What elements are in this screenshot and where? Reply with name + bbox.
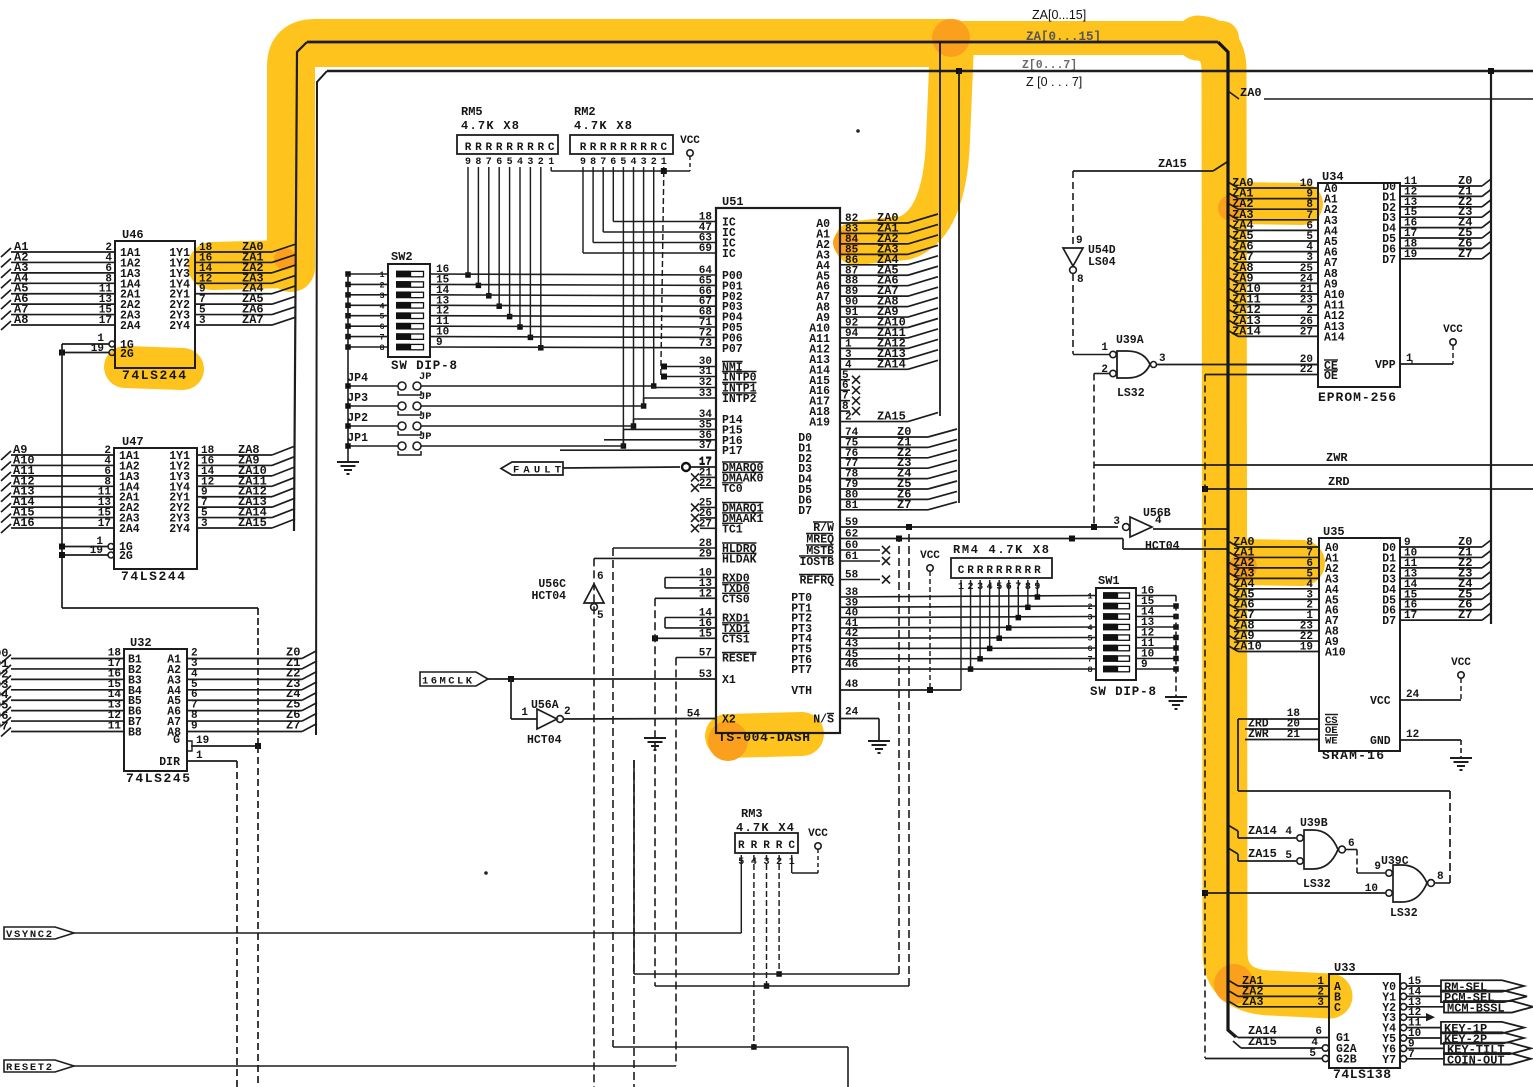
svg-text:U56A: U56A: [531, 699, 559, 712]
svg-text:LS32: LS32: [1117, 387, 1145, 400]
wire net ZA9 from U51: [840, 316, 908, 318]
wire net ZA14 from U47 pin 5: [197, 517, 272, 519]
wire PT5 to SW1: [840, 647, 1096, 650]
svg-text:8: 8: [475, 157, 481, 168]
svg-text:R: R: [580, 142, 587, 154]
wire SW2 pin 16 to U51 P00: [430, 274, 716, 275]
wire net Z0 from U35 pin 9: [1400, 546, 1482, 548]
svg-text:JP2: JP2: [347, 412, 368, 425]
wire net A6 to U46 pin 13: [11, 303, 115, 305]
svg-text:VPP: VPP: [1375, 359, 1396, 372]
svg-text:C: C: [1334, 1002, 1341, 1015]
wire net ZA3 to U33: [1228, 1001, 1238, 1007]
wire net ZA4 to U34 pin 6: [1228, 224, 1238, 230]
svg-text:GND: GND: [1370, 735, 1391, 748]
wire HLDRQ vertical: [612, 548, 614, 1047]
wire net A11 to U47 pin 6: [11, 475, 114, 477]
wire net D6 to U32 pin 12: [11, 720, 124, 722]
wire net ZA0 from U51: [840, 222, 908, 224]
wire JP2 to U51: [421, 425, 634, 427]
svg-text:VCC: VCC: [1443, 324, 1463, 336]
svg-text:4: 4: [1087, 623, 1092, 633]
wire net D3 to U32 pin 15: [11, 689, 124, 691]
svg-text:D7: D7: [798, 505, 812, 518]
svg-text:R: R: [776, 840, 783, 852]
svg-text:LS32: LS32: [1390, 907, 1418, 920]
net RM-SEL: [1407, 985, 1441, 987]
svg-text:ZA15: ZA15: [877, 410, 906, 424]
wire G vertical: [257, 746, 259, 1087]
svg-text:RM3: RM3: [741, 807, 763, 821]
svg-text:U35: U35: [1323, 525, 1345, 539]
wire RM3 pin1: [791, 855, 793, 873]
svg-text:R: R: [996, 565, 1003, 577]
svg-text:5: 5: [507, 157, 513, 168]
wire SW2 pin 7 common: [348, 336, 388, 338]
svg-text:9: 9: [1141, 659, 1148, 671]
svg-text:X2: X2: [722, 714, 736, 727]
svg-text:U34: U34: [1322, 170, 1344, 184]
wire net ZA12 from U51: [840, 347, 908, 349]
svg-text:81: 81: [845, 500, 859, 512]
svg-text:ZA0: ZA0: [1240, 86, 1262, 100]
svg-text:JP: JP: [419, 371, 432, 383]
svg-text:19: 19: [91, 343, 104, 355]
wire RXD0/TXD0 loop: [665, 577, 716, 579]
svg-text:R: R: [600, 142, 607, 154]
wire U46/U47 enable rail: [61, 344, 63, 608]
svg-text:6: 6: [1348, 838, 1355, 850]
svg-text:3: 3: [527, 157, 533, 168]
net COIN-OUT: [1407, 1058, 1444, 1060]
wire RM5 pin 2 pull-up: [540, 167, 542, 348]
wire net Z7 from U51: [840, 509, 928, 511]
svg-text:17: 17: [99, 315, 112, 327]
svg-text:SW1: SW1: [1098, 574, 1120, 588]
wire net A5 to U46 pin 11: [11, 293, 115, 295]
svg-text:8: 8: [1077, 274, 1084, 286]
wire PT2 to SW1: [840, 617, 1096, 618]
svg-text:G2B: G2B: [1336, 1054, 1357, 1067]
svg-text:8: 8: [590, 157, 596, 168]
wire SW1 pin 13: [1136, 626, 1176, 628]
svg-text:P07: P07: [722, 343, 743, 356]
svg-text:Z7: Z7: [1458, 608, 1472, 622]
wire net ZA13 from U51: [840, 358, 908, 360]
svg-text:R: R: [527, 142, 534, 154]
wire net Z5 from U34 pin 17: [1400, 237, 1482, 239]
svg-text:ZWR: ZWR: [1326, 451, 1348, 465]
svg-text:5: 5: [1285, 850, 1292, 862]
wire net ZA2 to U35 pin 6: [1228, 562, 1238, 568]
wire net Z1 from U51: [840, 446, 928, 448]
svg-text:R: R: [620, 142, 627, 154]
buffer U47 (74LS244): [114, 448, 197, 569]
pin U34 CE: [1227, 364, 1318, 366]
svg-text:HLDAK: HLDAK: [722, 553, 757, 566]
wire net ZA12 to U34 pin 2: [1228, 309, 1238, 315]
wire net A2 to U46 pin 4: [11, 261, 115, 263]
wire HLDRQ: [613, 547, 716, 549]
net PCM-SEL: [1407, 995, 1441, 997]
svg-text:74LS244: 74LS244: [122, 368, 186, 383]
wire RM3 pin2: [778, 855, 780, 974]
svg-text:74LS245: 74LS245: [126, 771, 190, 786]
wire SW2 pin 8 common: [348, 346, 388, 348]
wire to U33 G2B: [1205, 1058, 1322, 1060]
svg-text:A16: A16: [13, 516, 35, 530]
wire net ZA6 from U51: [840, 285, 908, 287]
svg-text:4: 4: [1285, 826, 1292, 838]
svg-text:VTH: VTH: [791, 685, 812, 698]
wire SW2 pin 1 common: [348, 273, 388, 275]
wire RESET vertical: [676, 657, 716, 659]
svg-text:3: 3: [641, 157, 647, 168]
svg-text:R: R: [475, 142, 482, 154]
svg-text:73: 73: [699, 338, 713, 350]
svg-text:2G: 2G: [120, 348, 134, 361]
svg-text:21: 21: [1287, 729, 1301, 741]
wire SW1 pin 9: [1136, 668, 1176, 670]
svg-text:2: 2: [379, 280, 384, 290]
svg-text:EPROM-256: EPROM-256: [1318, 390, 1396, 405]
svg-text:JP4: JP4: [347, 372, 368, 385]
wire P17: [560, 449, 716, 451]
wire SW2 pin 14 to U51 P02: [430, 294, 716, 297]
svg-text:2Y4: 2Y4: [169, 523, 190, 536]
svg-text:3: 3: [1159, 353, 1166, 365]
wire net ZA10 to U35 pin 19: [1228, 646, 1238, 652]
wire net ZA10 from U47 pin 14: [197, 475, 272, 477]
wire RM5 pin 1 common: [550, 167, 552, 171]
wire: ZA bus right corner + vertical trunk: [1218, 42, 1236, 1037]
wire SW1 pin 10: [1136, 658, 1176, 660]
svg-text:ZA3: ZA3: [1242, 995, 1264, 1009]
svg-text:D7: D7: [0, 720, 8, 734]
svg-text:CTS1: CTS1: [722, 633, 750, 646]
svg-text:R: R: [506, 142, 513, 154]
wire RM2 pin 4 pull-up to jumper line: [633, 167, 635, 426]
wire net Z6 from U34 pin 18: [1400, 247, 1482, 249]
wire net ZA1 to U35 pin 7: [1228, 551, 1238, 557]
wire net A8 to U46 pin 17: [11, 324, 115, 326]
svg-text:U51: U51: [722, 195, 744, 209]
net KEY-2P: [1407, 1037, 1441, 1039]
svg-text:R: R: [1005, 565, 1012, 577]
wire net Z2 from U35 pin 11: [1400, 567, 1482, 569]
svg-text:17: 17: [699, 456, 712, 468]
svg-text:9: 9: [465, 157, 471, 168]
net FAULT: [501, 462, 563, 475]
svg-text:R: R: [977, 565, 984, 577]
wire RM3 pin4: [753, 855, 755, 1047]
svg-text:4.7K X8: 4.7K X8: [574, 119, 632, 133]
wire net Z4 from U32 pin 6: [187, 699, 302, 701]
svg-text:17: 17: [1404, 610, 1417, 622]
svg-text:19: 19: [1300, 642, 1313, 654]
wire SW2 pin 2 common: [348, 283, 388, 285]
wire net Z6 from U51: [840, 498, 928, 500]
wire: ZA bus top horizontal: [307, 41, 1218, 44]
svg-text:RM5: RM5: [461, 105, 483, 119]
svg-text:R: R: [986, 565, 993, 577]
ground (N/S): [868, 740, 890, 742]
wire to U54D: [1072, 171, 1074, 247]
wire net ZA2 from U46 pin 14: [195, 272, 272, 274]
wire net Z0 from U34 pin 11: [1400, 185, 1482, 187]
wire net A16 to U47 pin 17: [11, 527, 114, 529]
svg-text:9: 9: [1076, 235, 1083, 247]
pin U35 WE net ZWR: [1245, 739, 1319, 741]
wire net Z2 from U32 pin 4: [187, 678, 302, 680]
wire RM3 pin3: [766, 855, 768, 986]
svg-text:4: 4: [379, 301, 384, 311]
svg-text:JP: JP: [419, 391, 432, 403]
wire net ZA8 from U47 pin 18: [197, 454, 272, 456]
wire RM2 pin 8 to U51 IC pin: [602, 167, 604, 232]
svg-text:2A4: 2A4: [119, 523, 140, 536]
wire RM4 pin 9 pull-up: [1036, 580, 1038, 597]
wire U39A out to U34 CE: [1157, 364, 1318, 366]
svg-text:ZA14: ZA14: [1248, 824, 1277, 838]
wire HLDAK: [594, 557, 716, 559]
svg-text:69: 69: [699, 243, 712, 255]
wire SW2 pin 9 to U51 P07: [430, 346, 716, 349]
svg-text:R: R: [1034, 565, 1041, 577]
wire net ZA9 from U47 pin 16: [197, 464, 272, 466]
wire RM2 pin 7 to U51 IC pin: [592, 167, 594, 243]
svg-text:Z7: Z7: [286, 719, 300, 733]
svg-text:R: R: [650, 142, 657, 154]
svg-text:IOSTB: IOSTB: [799, 556, 834, 569]
wire net Z1 from U32 pin 3: [187, 668, 302, 670]
wire PT3 to SW1: [840, 626, 1096, 629]
wire ZRD/OE rail vertical: [1204, 375, 1206, 1059]
svg-text:4: 4: [630, 157, 636, 168]
svg-text:3: 3: [201, 518, 208, 530]
svg-text:19: 19: [196, 735, 209, 747]
wire RM5 pin 7 pull-up: [488, 167, 490, 296]
bus entry hatches left edge: [1, 248, 11, 257]
svg-text:IC: IC: [722, 248, 736, 261]
wire net Z7 from U35 pin 17: [1400, 619, 1482, 621]
svg-text:Z7: Z7: [897, 498, 911, 512]
svg-text:P17: P17: [722, 445, 743, 458]
buffer U46 (74LS244): [115, 241, 195, 368]
svg-text:LS04: LS04: [1088, 256, 1116, 269]
wire net D2 to U32 pin 16: [11, 678, 124, 680]
wire SW2 pin 13 to U51 P03: [430, 304, 716, 307]
eprom U34 (EPROM-256): [1318, 183, 1400, 387]
net ZA14 to U33 G1: [1228, 1030, 1238, 1038]
svg-text:LS32: LS32: [1303, 878, 1331, 891]
wire net Z5 from U35 pin 15: [1400, 598, 1482, 600]
wire net ZA3 from U46 pin 12: [195, 282, 272, 284]
wire net Z3 from U32 pin 5: [187, 689, 302, 691]
svg-text:ZA15: ZA15: [1248, 1035, 1277, 1049]
svg-text:5: 5: [597, 610, 604, 622]
svg-text:Z7: Z7: [1458, 247, 1472, 261]
wire net ZA0 to U35 pin 8: [1228, 541, 1238, 547]
wire net A13 to U47 pin 11: [11, 496, 114, 498]
wire PT4 to SW1: [840, 637, 1096, 640]
wire net Z7 from U34 pin 19: [1400, 258, 1482, 260]
wire net Z4 from U51: [840, 478, 928, 480]
wire RM2 pin 2 pull-up to jumper line: [653, 167, 655, 386]
svg-text:R: R: [738, 840, 745, 852]
wire JP3 to U51: [421, 405, 644, 407]
wire RXD1/TXD1 loop: [665, 617, 716, 619]
svg-text:ZA[0...15]: ZA[0...15]: [1032, 8, 1086, 22]
wire net Z2 from U51: [840, 457, 928, 459]
svg-text:VCC: VCC: [1451, 657, 1471, 669]
wire net ZA2 to U34 pin 8: [1228, 203, 1238, 209]
wire RM5 pin 6 pull-up: [498, 167, 500, 306]
svg-text:JP: JP: [419, 431, 432, 443]
svg-text:VCC: VCC: [680, 135, 700, 147]
wire SW2 pin 3 common: [348, 294, 388, 296]
svg-text:R: R: [610, 142, 617, 154]
x marks unconnected DMA pins: [700, 476, 716, 478]
svg-text:C: C: [788, 840, 795, 852]
wire RM4 pin 3 pull-up: [979, 580, 981, 659]
svg-text:U39A: U39A: [1116, 334, 1144, 347]
svg-text:1: 1: [1087, 592, 1092, 602]
wire net ZA0 to U34 pin 10: [1228, 182, 1238, 188]
svg-text:2: 2: [564, 706, 571, 718]
svg-text:5: 5: [620, 157, 626, 168]
svg-text:INTP2: INTP2: [722, 393, 757, 406]
wire net Z1 from U34 pin 12: [1400, 195, 1482, 197]
wire RM2 pin 1 to VCC rail: [663, 167, 665, 171]
wire SW1 pin 11: [1136, 647, 1176, 649]
svg-text:1: 1: [196, 750, 203, 762]
wire U54D out to U39A: [1072, 274, 1074, 354]
svg-text:HCT04: HCT04: [1145, 540, 1180, 553]
wire RM2 pin 9 to U51 IC pin: [612, 167, 614, 222]
wire net Z7 from U32 pin 9: [187, 731, 302, 733]
svg-text:R: R: [1015, 565, 1022, 577]
svg-text:9: 9: [436, 337, 443, 349]
wire net Z6 from U32 pin 8: [187, 720, 302, 722]
svg-text:Z [0 . . . 7]: Z [0 . . . 7]: [1026, 75, 1082, 89]
svg-text:U39C: U39C: [1381, 855, 1409, 868]
svg-text:2A4: 2A4: [120, 320, 141, 333]
svg-text:3: 3: [199, 315, 206, 327]
svg-text:3: 3: [1087, 613, 1092, 623]
wire net A7 to U46 pin 15: [11, 314, 115, 316]
wire MREQ rail to U39C input 10: [1205, 892, 1385, 894]
wire enable rail to U32: [62, 607, 258, 609]
wire net D1 to U32 pin 17: [11, 668, 124, 670]
wire R/W return: [655, 985, 909, 987]
wire net ZA4 from U46 pin 9: [195, 293, 272, 295]
wire net Z4 from U34 pin 16: [1400, 227, 1482, 229]
wire SW2/JP ground rail: [347, 274, 349, 462]
svg-text:2: 2: [845, 412, 852, 424]
svg-text:27: 27: [1300, 326, 1313, 338]
svg-text:R: R: [537, 142, 544, 154]
wire net Z0 from U32 pin 2: [187, 658, 302, 660]
wire SW1 pin 12: [1136, 637, 1176, 639]
wire U39A input 2 from ZWR rail: [1094, 373, 1110, 375]
svg-text:R: R: [517, 142, 524, 154]
svg-text:4.7K X8: 4.7K X8: [461, 119, 519, 133]
wire net ZA8 to U35 pin 23: [1228, 625, 1238, 631]
wire net Z4 from U35 pin 14: [1400, 588, 1482, 590]
wire RM4 pin 7 pull-up: [1017, 580, 1019, 618]
svg-text:ZA15: ZA15: [1158, 157, 1187, 171]
wire net ZA14 to U34 pin 27: [1228, 330, 1238, 336]
wire PT1 to SW1: [840, 606, 1096, 607]
wire net A15 to U47 pin 15: [11, 517, 114, 519]
svg-text:ZA10: ZA10: [1233, 640, 1262, 654]
wire net Z2 from U34 pin 13: [1400, 206, 1482, 208]
net KEY-TILT: [1407, 1047, 1444, 1049]
wire net ZA2 to U33: [1228, 990, 1238, 996]
svg-text:R: R: [751, 840, 758, 852]
svg-text:7: 7: [486, 157, 492, 168]
wire RM4 pin 8 pull-up: [1027, 580, 1029, 607]
wire RM4 pin 2 pull-up: [970, 580, 972, 669]
wire U39B out to U39C in: [1346, 849, 1358, 851]
svg-text:R: R: [465, 142, 472, 154]
wire net A4 to U46 pin 8: [11, 282, 115, 284]
svg-text:R: R: [1025, 565, 1032, 577]
svg-text:2Y4: 2Y4: [169, 320, 190, 333]
wire net ZA5 from U51: [840, 274, 908, 276]
net KEY-1P: [1407, 1027, 1441, 1029]
inverter U56A (HCT04): [510, 679, 512, 719]
wire: Z branch vertical to U51 data pins: [958, 71, 960, 503]
svg-text:VCC: VCC: [808, 828, 828, 840]
wire net ZA11 from U47 pin 12: [197, 485, 272, 487]
pin U35 OE net ZRD: [1245, 728, 1319, 730]
wire RM5 pin 5 pull-up: [509, 167, 511, 317]
svg-text:TC0: TC0: [722, 483, 743, 496]
svg-text:1: 1: [379, 270, 384, 280]
svg-text:37: 37: [699, 440, 712, 452]
svg-text:JP1: JP1: [347, 432, 368, 445]
svg-text:ZA14: ZA14: [877, 357, 906, 371]
wire net ZA15 from U47 pin 3: [197, 527, 272, 529]
wire net ZA1 from U51: [840, 232, 908, 234]
wire net ZA5 to U35 pin 3: [1228, 593, 1238, 599]
wire net Z3 from U51: [840, 467, 928, 469]
net 16MCLK: [420, 672, 488, 686]
svg-text:ZRD: ZRD: [1328, 475, 1350, 489]
svg-text:5: 5: [1087, 634, 1092, 644]
wire RM5 pin 9 pull-up: [467, 167, 469, 275]
svg-text:HCT04: HCT04: [527, 734, 562, 747]
svg-text:R: R: [590, 142, 597, 154]
wire SW1 pin 16: [1136, 595, 1176, 597]
wire HLDAK vertical: [593, 558, 595, 1087]
svg-text:11: 11: [108, 721, 122, 733]
svg-text:OE: OE: [1324, 370, 1338, 383]
U32 G and DIR pins: [191, 745, 258, 747]
wire net ZA7 to U34 pin 3: [1228, 256, 1238, 262]
svg-text:VCC: VCC: [920, 550, 940, 562]
svg-text:3: 3: [379, 291, 384, 301]
svg-text:2: 2: [651, 157, 657, 168]
wire net ZA6 from U46 pin 5: [195, 314, 272, 316]
net VSYNC2: [4, 927, 74, 939]
svg-text:8: 8: [1087, 665, 1092, 675]
wire net Z3 from U34 pin 15: [1400, 216, 1482, 218]
wire net Z1 from U35 pin 10: [1400, 556, 1482, 558]
wire RM2 pin 6 to U51 IC pin: [582, 167, 584, 253]
